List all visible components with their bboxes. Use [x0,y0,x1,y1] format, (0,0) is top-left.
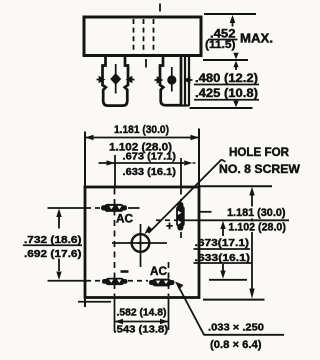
lead 1 left tick [97,77,104,82]
lead 2 right tick [185,78,192,83]
svg-text:.425 (10.8): .425 (10.8) [195,88,258,100]
top ext already at y208 [56,209,61,218]
centerline through left terminals (vertical dashed) [114,189,116,297]
terminal plus [176,202,185,231]
plus terminal vertical dashes [180,189,182,243]
left edge extension up [84,132,86,188]
label 1.102 (28.0) right [226,222,289,234]
svg-text:(11.5): (11.5) [205,39,236,51]
underline [194,84,259,86]
underline [194,262,253,264]
bowtie arrows at body bottom ext [233,53,238,70]
lead 1 (left quick-connect tab, side view) [97,57,135,106]
underline [194,248,251,250]
plus centerline extension up [180,158,182,187]
svg-text:.673 (17.1): .673 (17.1) [123,152,177,163]
label 1.181 (30.0) right [226,207,288,220]
svg-text:HOLE FOR: HOLE FOR [229,145,289,159]
terminal AC bottom [149,279,175,287]
bottom AC centerline extension right [209,279,247,281]
plus horizontal centerline [156,219,199,221]
svg-text:.732 (18.6): .732 (18.6) [24,234,82,246]
svg-text:.033 × .250: .033 × .250 [208,322,264,334]
rear tab edge lines [184,57,186,105]
bottom terminals horizontal centerline [48,280,149,282]
AC top horizontal centerline [48,207,140,209]
svg-text:AC: AC [150,266,167,278]
left edge extension below [84,297,86,307]
dim .582/.543 line [115,319,169,324]
package outline (top view square) [85,187,199,298]
right: short AC ext line [200,211,212,213]
lead 1 hole (diamond) [110,73,121,85]
lead 2 hole (round) [167,75,176,84]
extension line at lead tips [190,107,253,109]
left dim .732/.692 [56,209,61,281]
svg-text:1.102 (28.0): 1.102 (28.0) [228,222,286,234]
svg-text:.633 (16.1): .633 (16.1) [123,167,177,178]
down arrow to lead tip line [233,101,238,108]
label HOLE FOR NO. 8 SCREW [219,145,301,176]
svg-text:.673(17.1): .673(17.1) [195,237,250,249]
right: top edge extension [199,185,272,187]
leader to hole [144,160,225,235]
svg-text:.692 (17.6): .692 (17.6) [24,248,82,260]
svg-text:1.181 (30.0): 1.181 (30.0) [114,124,169,136]
bottom AC vertical dashes [168,262,170,296]
right edge extension up [198,129,200,188]
centerline below square (left) [114,299,116,332]
svg-text:AC: AC [116,214,133,226]
label minus [121,270,129,273]
crosshair vertical [140,224,142,267]
package body (side view) [84,17,201,56]
small tick at y305 [78,301,111,303]
AC centerline extension up [114,155,116,187]
dim .673 line [99,160,196,165]
hidden dashed lines inside body [134,4,161,68]
dim 1.181 width line [85,135,199,140]
underline [23,244,82,246]
svg-text:(0.8 × 6.4): (0.8 × 6.4) [210,339,262,351]
crosshair horizontal [112,242,167,244]
right: bottom edge extension [203,299,265,301]
terminal minus [102,278,128,285]
dim .673/.633 vertical (right) [220,221,225,279]
lead 1 centerline [115,64,117,94]
dim .452 underline [208,39,238,41]
leader .033 x .250 [175,282,284,335]
svg-text:.582 (14.8): .582 (14.8) [117,308,167,319]
lead 1 right tick [127,77,134,82]
dim .452 MAX up arrow [230,15,236,27]
svg-text:.543 (13.8): .543 (13.8) [114,325,169,336]
lead 2 centerline [171,67,173,92]
dim 1.181 vertical (right) [249,187,254,299]
extension line from body top [204,13,256,15]
svg-text:.480 (12.2): .480 (12.2) [195,73,258,85]
svg-text:1.181 (30.0): 1.181 (30.0) [227,207,286,219]
plus centerline extension right (underline of 1.181) [199,219,289,221]
bottom AC centerline below square [168,299,170,331]
lead 2 (right quick-connect tab, side view) [155,57,193,106]
svg-text:NO. 8 SCREW: NO. 8 SCREW [219,162,301,176]
underline [194,99,259,101]
lead 2 left tick [155,78,162,83]
svg-text:MAX.: MAX. [240,32,273,46]
center cross [138,240,144,246]
hole circle [112,224,167,267]
terminal AC top [101,204,127,212]
extension line from body bottom [203,59,248,61]
